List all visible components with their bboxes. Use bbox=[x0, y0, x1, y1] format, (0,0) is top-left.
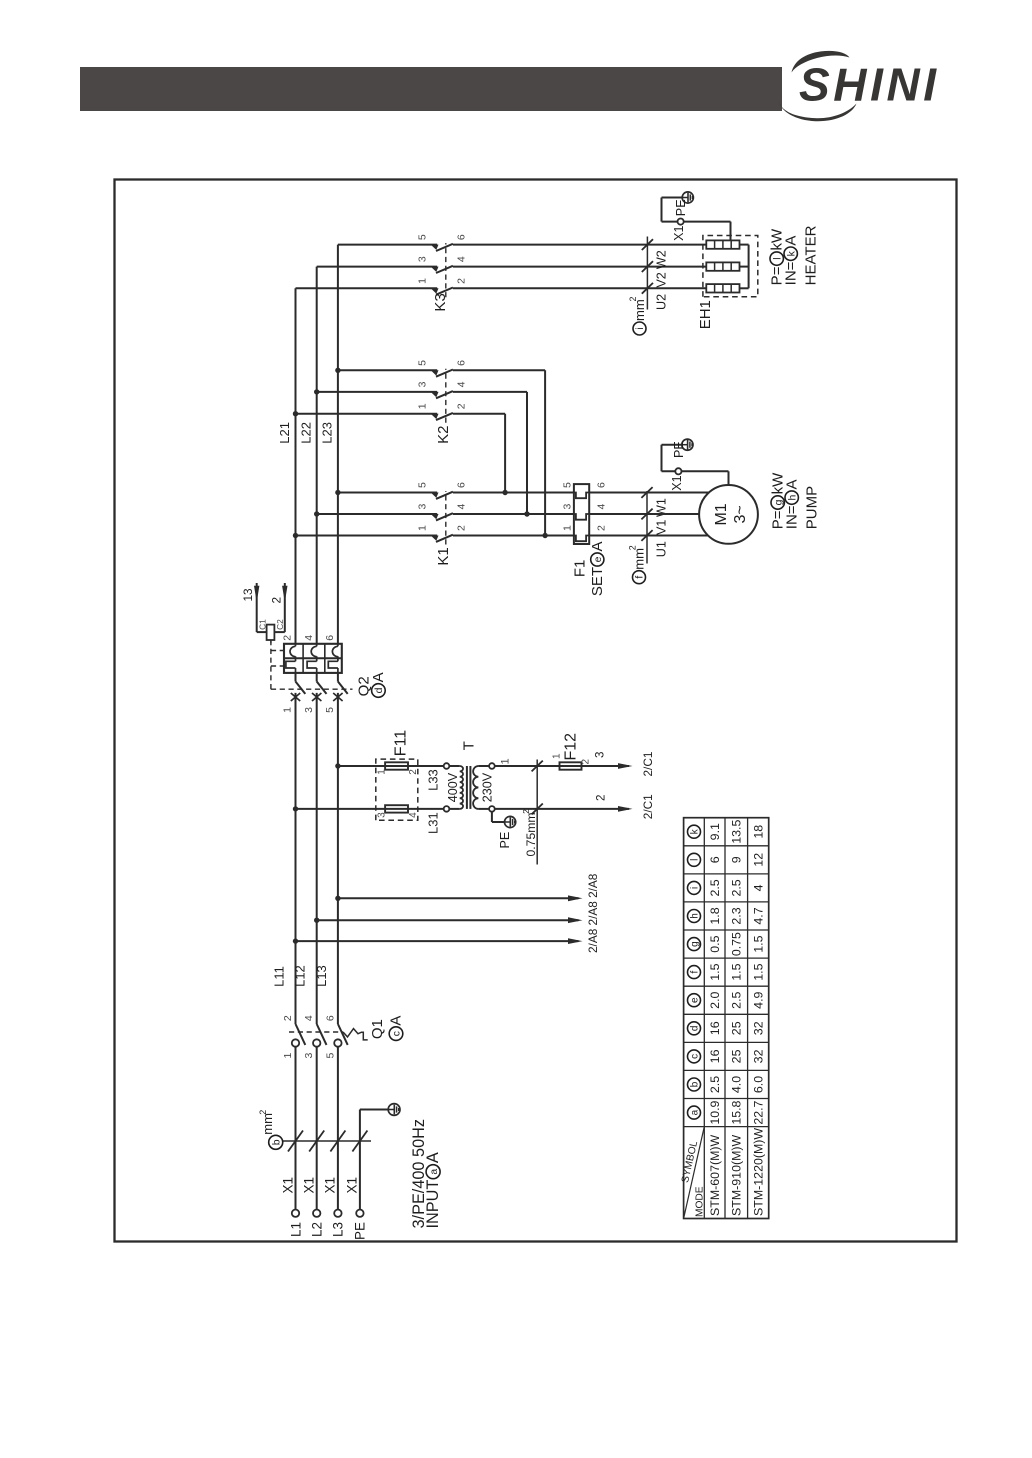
svg-text:4.9: 4.9 bbox=[752, 991, 766, 1008]
svg-text:2.5: 2.5 bbox=[708, 879, 722, 896]
svg-text:g: g bbox=[773, 499, 784, 505]
svg-text:g: g bbox=[690, 941, 701, 947]
svg-text:5: 5 bbox=[417, 360, 429, 366]
svg-text:5: 5 bbox=[324, 707, 336, 713]
svg-text:4.7: 4.7 bbox=[752, 907, 766, 924]
svg-text:0.75mm: 0.75mm bbox=[524, 812, 538, 856]
svg-text:18: 18 bbox=[752, 825, 766, 839]
svg-text:16: 16 bbox=[708, 1049, 722, 1063]
svg-text:3: 3 bbox=[594, 752, 607, 758]
svg-text:i: i bbox=[635, 327, 646, 329]
svg-text:3: 3 bbox=[562, 504, 574, 510]
svg-text:1: 1 bbox=[282, 1053, 294, 1059]
svg-text:A: A bbox=[388, 1016, 405, 1026]
svg-text:mm: mm bbox=[631, 548, 646, 570]
svg-text:V2: V2 bbox=[655, 272, 669, 287]
svg-text:5: 5 bbox=[324, 1053, 336, 1059]
svg-text:a: a bbox=[690, 1109, 701, 1115]
svg-text:L31: L31 bbox=[425, 812, 440, 834]
svg-text:6: 6 bbox=[456, 234, 468, 240]
svg-text:1: 1 bbox=[417, 403, 429, 409]
svg-text:6: 6 bbox=[708, 856, 722, 863]
svg-text:PUMP: PUMP bbox=[804, 486, 821, 529]
svg-text:a: a bbox=[429, 1169, 440, 1175]
svg-text:2.0: 2.0 bbox=[708, 991, 722, 1008]
svg-text:EH1: EH1 bbox=[697, 300, 714, 329]
svg-text:230V: 230V bbox=[481, 772, 495, 802]
svg-text:0.5: 0.5 bbox=[708, 935, 722, 952]
svg-text:L12: L12 bbox=[293, 965, 308, 987]
svg-text:1: 1 bbox=[562, 525, 574, 531]
svg-text:2: 2 bbox=[408, 769, 419, 775]
svg-text:3: 3 bbox=[303, 707, 315, 713]
svg-text:2: 2 bbox=[456, 278, 468, 284]
svg-text:L11: L11 bbox=[272, 966, 287, 987]
svg-text:PE: PE bbox=[674, 199, 688, 216]
svg-text:400V: 400V bbox=[446, 772, 460, 802]
svg-text:c: c bbox=[392, 1031, 403, 1036]
svg-text:13.5: 13.5 bbox=[730, 820, 744, 844]
svg-text:6: 6 bbox=[324, 635, 336, 641]
svg-text:1.8: 1.8 bbox=[708, 907, 722, 924]
svg-text:13: 13 bbox=[241, 588, 255, 602]
svg-text:1.5: 1.5 bbox=[708, 963, 722, 980]
svg-text:5: 5 bbox=[417, 234, 429, 240]
svg-text:MODE: MODE bbox=[694, 1186, 705, 1217]
svg-text:2: 2 bbox=[270, 597, 284, 604]
svg-text:5: 5 bbox=[417, 482, 429, 488]
svg-text:6.0: 6.0 bbox=[752, 1076, 766, 1093]
svg-text:0.75: 0.75 bbox=[730, 932, 744, 956]
svg-text:4.0: 4.0 bbox=[730, 1076, 744, 1093]
svg-text:2.5: 2.5 bbox=[730, 991, 744, 1008]
svg-text:1: 1 bbox=[376, 769, 387, 775]
svg-text:l: l bbox=[772, 257, 783, 259]
svg-text:X1: X1 bbox=[323, 1177, 338, 1194]
svg-text:STM-910(M)W: STM-910(M)W bbox=[730, 1134, 744, 1216]
svg-text:L2: L2 bbox=[310, 1222, 325, 1237]
svg-text:STM-607(M)W: STM-607(M)W bbox=[708, 1134, 722, 1216]
svg-text:C2: C2 bbox=[275, 619, 285, 630]
svg-text:HEATER: HEATER bbox=[803, 225, 820, 285]
svg-text:f: f bbox=[635, 576, 646, 579]
svg-text:T: T bbox=[461, 741, 478, 750]
svg-text:1.5: 1.5 bbox=[752, 963, 766, 980]
svg-text:F12: F12 bbox=[563, 733, 580, 761]
svg-text:Q1: Q1 bbox=[369, 1019, 386, 1039]
svg-text:X1: X1 bbox=[345, 1177, 360, 1194]
svg-text:2: 2 bbox=[594, 795, 607, 801]
svg-text:i: i bbox=[690, 887, 701, 889]
svg-text:4: 4 bbox=[456, 256, 468, 262]
svg-text:F1: F1 bbox=[572, 560, 589, 578]
svg-text:A: A bbox=[424, 1152, 442, 1163]
svg-text:15.8: 15.8 bbox=[730, 1100, 744, 1124]
svg-text:L33: L33 bbox=[425, 769, 440, 791]
svg-text:3~: 3~ bbox=[732, 505, 749, 523]
svg-text:STM-1220(M)W: STM-1220(M)W bbox=[752, 1128, 766, 1216]
svg-text:1: 1 bbox=[500, 758, 512, 764]
svg-text:A: A bbox=[370, 672, 387, 682]
svg-text:4: 4 bbox=[303, 635, 315, 641]
svg-text:2: 2 bbox=[628, 297, 638, 302]
svg-text:e: e bbox=[690, 997, 701, 1003]
svg-text:L3: L3 bbox=[331, 1222, 346, 1237]
svg-text:2.3: 2.3 bbox=[730, 907, 744, 924]
svg-text:16: 16 bbox=[708, 1021, 722, 1035]
svg-text:L23: L23 bbox=[320, 422, 335, 444]
svg-text:4: 4 bbox=[752, 884, 766, 891]
svg-text:L22: L22 bbox=[298, 422, 313, 444]
svg-text:6: 6 bbox=[324, 1015, 336, 1021]
svg-text:1.5: 1.5 bbox=[730, 963, 744, 980]
svg-text:2: 2 bbox=[595, 525, 607, 531]
svg-text:X1: X1 bbox=[280, 1177, 295, 1194]
svg-text:SET: SET bbox=[589, 567, 606, 596]
svg-text:L21: L21 bbox=[277, 422, 292, 444]
svg-text:c: c bbox=[690, 1054, 701, 1059]
svg-text:2/A8 2/A8 2/A8: 2/A8 2/A8 2/A8 bbox=[586, 873, 600, 953]
svg-text:2: 2 bbox=[282, 1015, 294, 1021]
svg-text:2: 2 bbox=[521, 809, 531, 814]
svg-text:A: A bbox=[589, 541, 606, 551]
svg-text:PE: PE bbox=[672, 441, 686, 458]
svg-text:1: 1 bbox=[551, 753, 562, 759]
svg-text:e: e bbox=[593, 556, 604, 562]
svg-text:U2: U2 bbox=[655, 294, 669, 310]
svg-text:C1: C1 bbox=[257, 619, 267, 630]
svg-text:A: A bbox=[783, 236, 800, 246]
svg-text:3: 3 bbox=[417, 504, 429, 510]
svg-text:2.5: 2.5 bbox=[708, 1076, 722, 1093]
svg-text:1: 1 bbox=[417, 278, 429, 284]
svg-text:mm: mm bbox=[260, 1113, 275, 1135]
svg-text:2: 2 bbox=[580, 759, 591, 765]
svg-text:3: 3 bbox=[417, 381, 429, 387]
svg-text:IN=: IN= bbox=[783, 261, 800, 285]
svg-text:L1: L1 bbox=[288, 1222, 303, 1237]
svg-text:d: d bbox=[374, 687, 385, 693]
svg-text:V1: V1 bbox=[655, 520, 669, 535]
svg-text:3: 3 bbox=[376, 812, 387, 818]
svg-text:5: 5 bbox=[562, 482, 574, 488]
svg-text:4: 4 bbox=[456, 504, 468, 510]
svg-text:2: 2 bbox=[456, 403, 468, 409]
svg-text:X1: X1 bbox=[672, 226, 686, 241]
svg-text:6: 6 bbox=[456, 482, 468, 488]
svg-text:PE: PE bbox=[498, 832, 512, 849]
svg-text:10.9: 10.9 bbox=[708, 1100, 722, 1124]
svg-text:32: 32 bbox=[752, 1049, 766, 1063]
svg-text:A: A bbox=[784, 479, 801, 489]
svg-text:32: 32 bbox=[752, 1021, 766, 1035]
svg-text:4: 4 bbox=[456, 381, 468, 387]
svg-text:b: b bbox=[271, 1139, 282, 1145]
svg-text:K2: K2 bbox=[435, 426, 452, 444]
svg-text:3: 3 bbox=[417, 256, 429, 262]
svg-text:X1: X1 bbox=[670, 475, 684, 490]
svg-text:2.5: 2.5 bbox=[730, 879, 744, 896]
svg-text:4: 4 bbox=[408, 812, 419, 818]
svg-text:6: 6 bbox=[456, 360, 468, 366]
svg-text:l: l bbox=[690, 859, 701, 861]
svg-text:25: 25 bbox=[730, 1021, 744, 1035]
svg-text:f: f bbox=[690, 970, 701, 973]
svg-text:h: h bbox=[690, 913, 701, 919]
svg-text:3: 3 bbox=[303, 1053, 315, 1059]
svg-text:2: 2 bbox=[628, 545, 638, 550]
svg-text:4: 4 bbox=[303, 1015, 315, 1021]
svg-text:IN=: IN= bbox=[784, 505, 801, 529]
svg-text:X1: X1 bbox=[302, 1177, 317, 1194]
svg-text:K3: K3 bbox=[432, 293, 449, 311]
svg-text:mm: mm bbox=[632, 299, 647, 321]
svg-text:2: 2 bbox=[282, 635, 294, 641]
svg-text:25: 25 bbox=[730, 1049, 744, 1063]
svg-text:1: 1 bbox=[417, 525, 429, 531]
svg-text:d: d bbox=[690, 1026, 701, 1032]
svg-text:INPUT: INPUT bbox=[424, 1180, 442, 1229]
svg-text:L13: L13 bbox=[314, 965, 329, 987]
svg-text:2/C1: 2/C1 bbox=[641, 752, 655, 777]
svg-text:W2: W2 bbox=[655, 250, 669, 269]
svg-text:F11: F11 bbox=[393, 730, 410, 756]
svg-text:2: 2 bbox=[258, 1110, 268, 1115]
svg-text:2: 2 bbox=[456, 525, 468, 531]
svg-text:2/C1: 2/C1 bbox=[641, 794, 655, 819]
svg-text:b: b bbox=[690, 1081, 701, 1087]
svg-text:SHINI: SHINI bbox=[799, 59, 940, 111]
svg-text:12: 12 bbox=[752, 853, 766, 867]
svg-text:1.5: 1.5 bbox=[752, 935, 766, 952]
svg-text:6: 6 bbox=[595, 482, 607, 488]
svg-text:U1: U1 bbox=[655, 541, 669, 557]
svg-text:22.7: 22.7 bbox=[752, 1100, 766, 1124]
svg-text:9.1: 9.1 bbox=[708, 823, 722, 840]
svg-text:h: h bbox=[787, 494, 798, 500]
svg-text:9: 9 bbox=[730, 856, 744, 863]
svg-text:K1: K1 bbox=[435, 547, 452, 565]
svg-text:PE: PE bbox=[353, 1222, 368, 1240]
svg-text:1: 1 bbox=[282, 707, 294, 713]
svg-text:M1: M1 bbox=[713, 503, 730, 525]
svg-text:4: 4 bbox=[595, 504, 607, 510]
svg-text:k: k bbox=[786, 250, 797, 256]
